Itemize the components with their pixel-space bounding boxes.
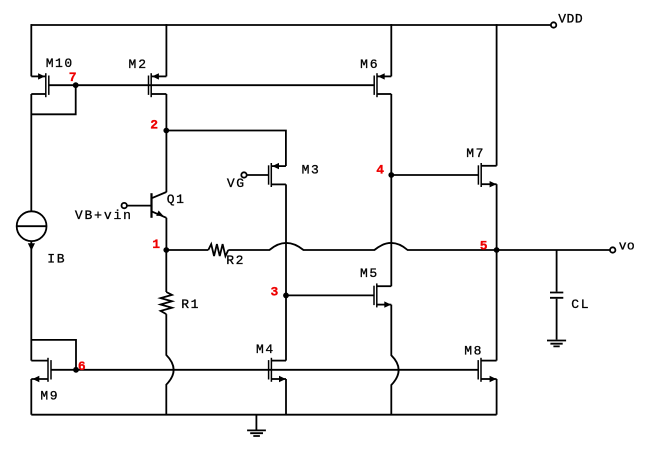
transistor Q1 (NPN BJT): [152, 192, 167, 250]
terminal VG: [241, 172, 246, 177]
wire: R2 to vo with hops over M3 and M6 columns, node 5: [228, 243, 610, 250]
wire: M8 source to bottom rail: [496, 379, 498, 415]
svg-text:M4: M4: [256, 342, 273, 357]
wire: node 1 to R2: [166, 249, 208, 251]
svg-text:VB+vin: VB+vin: [75, 208, 131, 223]
transistor M9 (NMOS, diode-connected): [31, 358, 51, 382]
wire: M2 source down through node 2 to Q1 collector: [165, 94, 167, 192]
transistor M10 (PMOS, diode-connected): [31, 73, 49, 97]
svg-text:7: 7: [69, 70, 77, 85]
wire: node 6 gate net (M9 gate to M8 gate): [51, 369, 478, 371]
wire: IB-to-node-6 branch: [31, 340, 76, 370]
svg-text:M9: M9: [40, 388, 57, 403]
node 5 junction dot: [494, 247, 500, 253]
node 3 junction dot: [283, 293, 289, 299]
svg-text:CL: CL: [571, 297, 588, 312]
wire: M7 drain column to VDD rail: [496, 24, 498, 166]
transistor M5 (NMOS): [374, 283, 391, 307]
wire: node 5 capacitor tap: [556, 250, 558, 292]
transistor M8 (NMOS): [478, 358, 496, 382]
current source IB: [17, 211, 47, 250]
node 1 junction dot: [163, 247, 169, 253]
terminal VB+vin: [122, 203, 127, 208]
wire: M7 source down to node 5: [496, 184, 498, 250]
wire: M5 source to bottom rail with hop over node 6 net: [391, 305, 398, 415]
svg-text:M8: M8: [464, 343, 481, 358]
node 6 junction dot: [73, 367, 79, 373]
svg-text:R2: R2: [226, 253, 243, 268]
svg-text:M6: M6: [360, 57, 378, 72]
svg-text:4: 4: [376, 162, 384, 177]
transistor M2 (PMOS): [149, 73, 167, 97]
transistor M6 (PMOS): [374, 73, 391, 97]
svg-text:R1: R1: [181, 297, 198, 312]
wire: VDD top rail: [31, 24, 551, 26]
wire: VG terminal to M3 gate: [247, 174, 269, 176]
svg-text:5: 5: [480, 238, 488, 253]
svg-text:6: 6: [78, 359, 86, 374]
node 7 junction dot: [73, 82, 79, 88]
wire: M6 drain column to VDD rail: [390, 24, 392, 76]
svg-text:2: 2: [150, 118, 158, 133]
svg-text:3: 3: [271, 284, 279, 299]
wire: node 2 net to M3 source: [166, 131, 286, 167]
transistor M7 (NMOS): [478, 163, 496, 187]
transistor M3 (PMOS): [269, 163, 286, 187]
wire: node 4 net to M7 gate: [391, 174, 478, 176]
wire: node 7 to M10 drain tie: [31, 85, 75, 114]
terminal VDD: [551, 22, 556, 27]
capacitor CL: [550, 293, 563, 298]
wire: node 7 gate net (M10 gate to M6 gate): [49, 84, 374, 86]
resistor R1: [161, 292, 172, 314]
ground symbol (bottom rail): [247, 415, 266, 436]
wire: bottom ground rail: [31, 414, 496, 416]
svg-text:vo: vo: [619, 239, 635, 254]
transistor M4 (NMOS): [269, 358, 286, 382]
svg-text:IB: IB: [47, 252, 64, 267]
terminal vo: [610, 247, 615, 252]
wire: VB+vin terminal to Q1 base: [127, 205, 151, 207]
svg-text:1: 1: [152, 237, 160, 252]
resistor R2: [208, 244, 228, 256]
wire: M2 drain column to VDD rail: [165, 24, 167, 76]
wire: left rail top (VDD to M10 source stub): [30, 24, 32, 76]
node 2 junction dot: [163, 128, 169, 134]
wire: left rail lower (IB bottom to M9 drain stub): [30, 241, 32, 361]
wire: left rail mid (M10 drain to IB top): [30, 94, 32, 211]
svg-text:Q1: Q1: [167, 192, 184, 207]
svg-text:VDD: VDD: [558, 12, 583, 27]
wire: node 1 down to R1: [165, 250, 167, 292]
svg-text:VG: VG: [227, 176, 244, 191]
ground under CL: [547, 341, 566, 347]
svg-text:M2: M2: [129, 57, 147, 72]
wire: R1 to bottom rail with hop over node 6 net: [166, 314, 173, 415]
wire: M4 source to bottom rail: [285, 379, 287, 415]
wire: node 5 down to M8 drain: [496, 250, 498, 361]
wire: M9 source to bottom rail: [30, 379, 32, 415]
wire: M3 drain down through node 3 to M4 drain: [285, 184, 287, 360]
node 4 junction dot: [388, 172, 394, 178]
wire: node 3 net to M5 gate: [286, 294, 374, 296]
svg-text:M5: M5: [360, 266, 377, 281]
wire: M6 source down through node 4 to M5 drain: [390, 94, 392, 286]
wire: CL to ground: [556, 299, 558, 340]
svg-text:M7: M7: [466, 146, 483, 161]
svg-text:M3: M3: [302, 162, 319, 177]
svg-text:M10: M10: [46, 56, 72, 71]
